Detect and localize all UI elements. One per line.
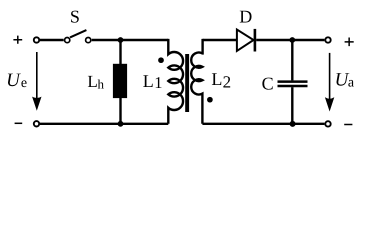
svg-text:2: 2 [223,73,232,92]
svg-text:U: U [6,70,21,91]
svg-text:1: 1 [154,73,162,92]
svg-text:D: D [239,7,252,27]
svg-text:L: L [143,71,154,91]
svg-text:S: S [70,7,80,27]
svg-text:L: L [211,69,222,89]
svg-text:a: a [348,76,355,91]
svg-text:e: e [21,76,27,91]
svg-text:L: L [87,72,97,91]
svg-text:C: C [262,73,274,93]
svg-text:h: h [98,77,105,92]
